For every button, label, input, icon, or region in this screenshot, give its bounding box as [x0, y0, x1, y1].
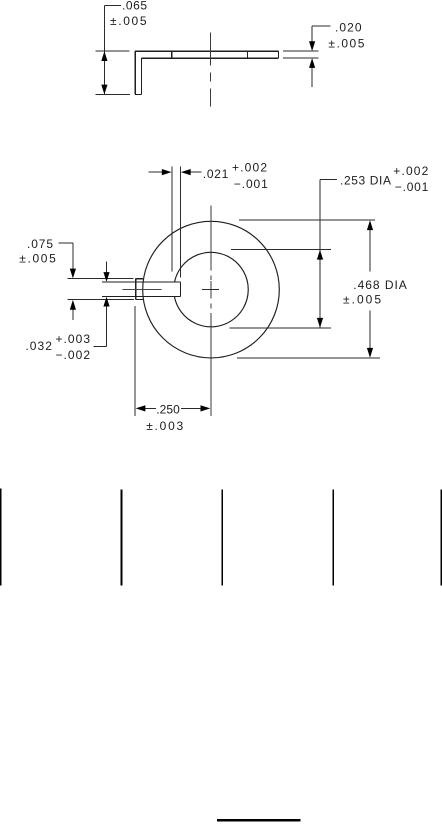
table column rule 3 — [221, 489, 223, 585]
top view: washer plate top edge — [135, 50, 278, 52]
.021 right arrow stem — [190, 171, 201, 173]
dimension .253 DIA extension lines — [230, 180, 337, 329]
svg-text:±.005: ±.005 — [328, 36, 364, 50]
center cross horizontal — [202, 289, 219, 291]
svg-text:+.003: +.003 — [56, 332, 91, 346]
svg-text:±.005: ±.005 — [19, 251, 56, 265]
svg-text:.020: .020 — [335, 21, 362, 35]
front view: inner circle (interrupted by tab) — [174, 252, 248, 326]
.075 lower arrow stem — [72, 309, 74, 320]
top view: washer plate bottom edge — [142, 57, 279, 59]
table column rule 2 — [120, 489, 122, 585]
top view: hole silhouette right tick — [247, 51, 249, 58]
svg-text:.250: .250 — [156, 403, 180, 417]
front view: bent tab face top edge — [136, 278, 144, 280]
dimension .020 extension lines — [283, 26, 330, 87]
svg-text:.253 DIA: .253 DIA — [340, 173, 391, 187]
.021 arrowhead right — [162, 169, 172, 175]
svg-text:±.005: ±.005 — [343, 293, 381, 307]
dimension .075 extension lines — [59, 243, 134, 320]
dimension .021 extension lines — [148, 166, 201, 277]
front view: outer circle — [143, 221, 280, 358]
top view: plate right end edge — [277, 51, 279, 58]
.020 leader elbow — [312, 25, 330, 27]
svg-text:+.002: +.002 — [232, 161, 267, 175]
.020 arrowhead up — [309, 58, 315, 68]
.253 leader elbow — [320, 179, 337, 181]
svg-text:−.001: −.001 — [395, 180, 429, 194]
.253 arrowhead down — [317, 318, 323, 328]
svg-text:.468 DIA: .468 DIA — [353, 278, 407, 292]
table column rule 1 — [0, 489, 2, 586]
.468 arrowhead up — [367, 220, 373, 230]
dimension .065 leader and dimension line — [95, 5, 130, 94]
svg-text:+.002: +.002 — [393, 164, 428, 178]
.032 arrowhead up — [103, 297, 109, 307]
svg-text:.075: .075 — [27, 237, 53, 251]
.021 arrowhead left — [181, 169, 191, 175]
.250 arrowhead right — [201, 405, 211, 411]
svg-text:.021: .021 — [203, 167, 229, 181]
.075 arrowhead up — [70, 300, 76, 310]
.021 left arrow stem — [148, 171, 162, 173]
table column rule 4 — [332, 489, 334, 585]
top view: bent tab outer edge — [134, 51, 136, 94]
.250 arrowhead left — [136, 405, 146, 411]
top view: bent tab inner edge — [141, 58, 143, 94]
table column rule 5 — [440, 489, 442, 585]
.468 arrowhead down — [367, 348, 373, 358]
svg-text:.065: .065 — [122, 0, 147, 12]
front view vertical centerline (dash-dot) — [210, 205, 212, 416]
dimension .468 DIA extension lines — [237, 220, 380, 358]
.250 dimension line segments — [145, 407, 156, 409]
.468 dimension line lower part — [369, 310, 371, 348]
top view: hole silhouette left tick — [171, 51, 173, 58]
front view: bent tab face left edge — [135, 279, 137, 300]
dimension .032 arrows — [93, 262, 106, 347]
svg-text:.032: .032 — [25, 339, 52, 353]
front view: tab top edge — [102, 281, 180, 283]
.032 arrowhead down — [103, 272, 109, 282]
front view: tab end edge — [179, 282, 181, 296]
.075 leader — [59, 242, 73, 244]
.468 dimension line upper part — [369, 230, 371, 272]
svg-text:−.002: −.002 — [56, 348, 91, 362]
dimension .250 extension line — [135, 306, 201, 416]
svg-text:±.003: ±.003 — [146, 419, 183, 433]
.065 extension line bottom — [95, 94, 130, 96]
front view: bent tab face bottom edge — [136, 299, 144, 301]
.020 arrowhead down — [309, 41, 315, 51]
.253 arrowhead up — [317, 250, 323, 260]
.065 arrowhead up — [101, 51, 107, 61]
bottom reference line — [217, 819, 301, 821]
.065 extension line top — [95, 50, 129, 52]
front view: tab middle line — [123, 289, 162, 291]
top view: bent tab bottom edge — [135, 93, 141, 95]
.020 lower arrow stem — [311, 67, 313, 87]
front view: tab bottom edge — [102, 296, 180, 298]
.075 arrowhead down — [70, 269, 76, 279]
svg-text:−.001: −.001 — [234, 177, 268, 191]
.065 arrowhead down — [101, 85, 107, 95]
svg-text:±.005: ±.005 — [110, 14, 147, 28]
.032 leader elbow — [93, 346, 106, 348]
top view centerline (dash-dot) — [210, 33, 212, 66]
